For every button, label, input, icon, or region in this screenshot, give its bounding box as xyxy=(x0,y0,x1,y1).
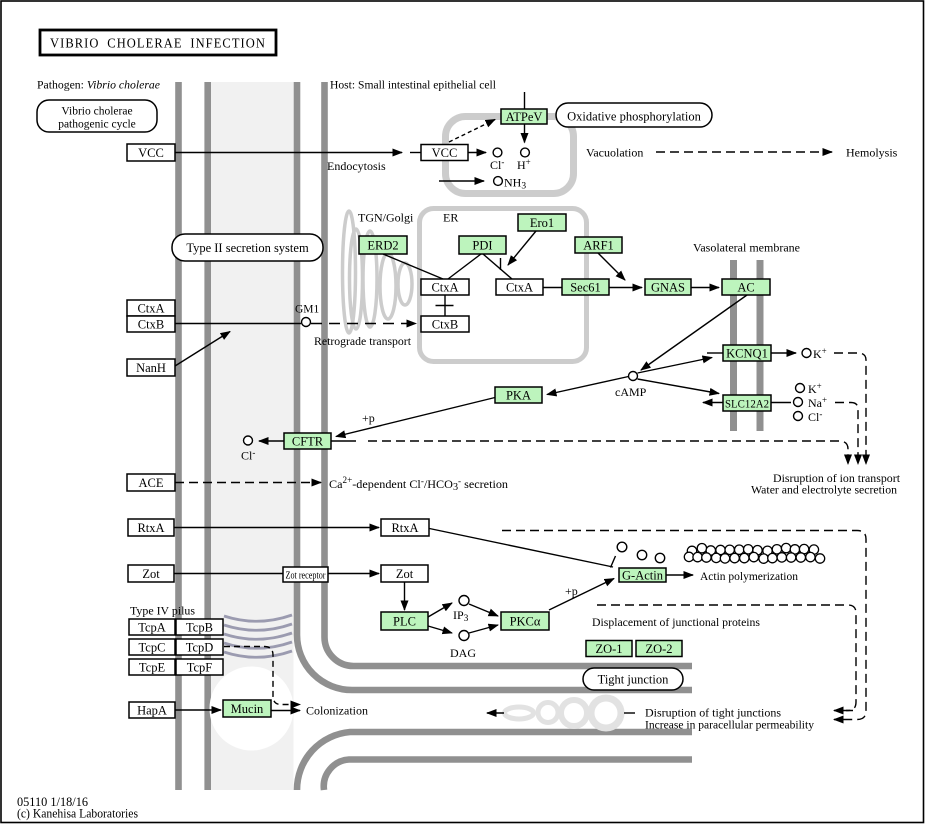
svg-text:CtxA: CtxA xyxy=(506,280,533,294)
svg-text:Sec61: Sec61 xyxy=(570,280,601,294)
svg-text:Water and electrolyte secretio: Water and electrolyte secretion xyxy=(751,483,897,497)
svg-text:VIBRIO CHOLERAE INFECTION: VIBRIO CHOLERAE INFECTION xyxy=(50,37,266,52)
svg-text:TcpC: TcpC xyxy=(139,640,166,654)
svg-text:RtxA: RtxA xyxy=(137,521,164,535)
svg-text:CtxB: CtxB xyxy=(138,317,164,331)
svg-text:HapA: HapA xyxy=(137,703,167,717)
svg-text:Tight junction: Tight junction xyxy=(598,673,669,687)
svg-text:Zot: Zot xyxy=(396,567,414,581)
svg-text:VCC: VCC xyxy=(432,146,458,160)
svg-text:Colonization: Colonization xyxy=(306,704,368,718)
svg-text:ZO-2: ZO-2 xyxy=(645,642,672,656)
svg-text:Ca2+-dependent Cl-/HCO3- secre: Ca2+-dependent Cl-/HCO3- secretion xyxy=(329,475,508,493)
svg-text:SLC12A2: SLC12A2 xyxy=(725,398,769,410)
svg-text:Vacuolation: Vacuolation xyxy=(586,146,643,160)
svg-text:GM1: GM1 xyxy=(295,304,320,316)
svg-text:Vibrio cholerae: Vibrio cholerae xyxy=(61,106,132,118)
svg-text:+p: +p xyxy=(565,584,578,598)
svg-text:PKCα: PKCα xyxy=(510,614,541,628)
svg-text:AC: AC xyxy=(737,280,754,294)
svg-text:TcpD: TcpD xyxy=(186,640,214,654)
svg-text:ER: ER xyxy=(443,211,458,225)
svg-text:TcpB: TcpB xyxy=(186,620,213,634)
svg-text:ZO-1: ZO-1 xyxy=(595,642,622,656)
svg-text:TGN/Golgi: TGN/Golgi xyxy=(358,211,414,225)
svg-text:ARF1: ARF1 xyxy=(583,238,614,252)
svg-text:+p: +p xyxy=(362,411,375,425)
svg-text:Endocytosis: Endocytosis xyxy=(327,159,386,173)
svg-text:Actin polymerization: Actin polymerization xyxy=(700,569,798,583)
svg-text:Type II secretion system: Type II secretion system xyxy=(186,241,309,255)
svg-text:PDI: PDI xyxy=(472,238,492,252)
svg-text:ACE: ACE xyxy=(139,476,164,490)
svg-text:Oxidative phosphorylation: Oxidative phosphorylation xyxy=(567,110,701,124)
svg-text:PKA: PKA xyxy=(506,388,531,402)
svg-text:Retrograde transport: Retrograde transport xyxy=(314,334,412,348)
svg-text:KCNQ1: KCNQ1 xyxy=(726,346,768,360)
svg-text:Pathogen: Vibrio cholerae: Pathogen: Vibrio cholerae xyxy=(37,78,161,92)
svg-text:TcpA: TcpA xyxy=(138,620,166,634)
svg-text:CtxA: CtxA xyxy=(137,301,164,315)
svg-text:Displacement of junctional pro: Displacement of junctional proteins xyxy=(592,615,760,629)
svg-text:DAG: DAG xyxy=(450,646,476,660)
svg-text:TcpE: TcpE xyxy=(139,660,166,674)
svg-text:Mucin: Mucin xyxy=(231,702,264,716)
svg-text:Host: Small intestinal epithel: Host: Small intestinal epithelial cell xyxy=(330,78,497,92)
svg-text:ATPeV: ATPeV xyxy=(506,110,543,124)
svg-text:Hemolysis: Hemolysis xyxy=(846,146,898,160)
svg-text:Ero1: Ero1 xyxy=(530,216,554,230)
svg-text:Zot: Zot xyxy=(142,567,160,581)
svg-text:(c) Kanehisa Laboratories: (c) Kanehisa Laboratories xyxy=(17,807,138,821)
svg-text:Zot receptor: Zot receptor xyxy=(286,571,327,582)
svg-text:TcpF: TcpF xyxy=(187,660,213,674)
svg-text:CFTR: CFTR xyxy=(292,434,324,448)
svg-text:Increase in paracellular perme: Increase in paracellular permeability xyxy=(645,718,814,732)
svg-text:G-Actin: G-Actin xyxy=(622,569,664,583)
svg-text:ERD2: ERD2 xyxy=(367,238,398,252)
svg-text:CtxB: CtxB xyxy=(432,317,458,331)
svg-text:GNAS: GNAS xyxy=(651,280,685,294)
svg-text:Type IV pilus: Type IV pilus xyxy=(130,604,195,618)
svg-text:PLC: PLC xyxy=(393,614,416,628)
svg-text:RtxA: RtxA xyxy=(391,521,418,535)
svg-text:CtxA: CtxA xyxy=(431,280,458,294)
svg-text:Vasolateral membrane: Vasolateral membrane xyxy=(693,241,800,255)
svg-text:pathogenic cycle: pathogenic cycle xyxy=(58,119,136,131)
svg-text:cAMP: cAMP xyxy=(615,385,647,399)
svg-text:NanH: NanH xyxy=(136,361,166,375)
svg-text:VCC: VCC xyxy=(138,146,164,160)
